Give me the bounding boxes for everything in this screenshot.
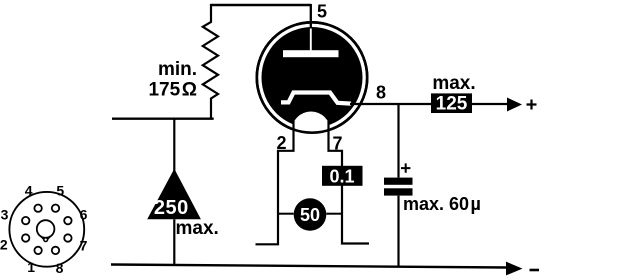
socket pin hole 2 (22, 234, 29, 241)
svg-text:3: 3 (1, 207, 9, 223)
wire top (resistor to pin 5) (211, 4, 312, 6)
capacitor C1 bottom lead wire (397, 196, 399, 268)
heater lead pin 7 wire (329, 121, 370, 244)
socket pin hole 7 (64, 234, 71, 241)
wire triangle lower lead (173, 219, 175, 265)
voltage box 125 (431, 93, 472, 113)
svg-text:2: 2 (277, 133, 287, 153)
socket pin hole 5 (52, 205, 59, 212)
svg-text:50: 50 (300, 205, 320, 225)
svg-text:max.: max. (176, 218, 219, 239)
minus sign (530, 269, 540, 272)
capacitor C1 bottom plate (384, 188, 413, 195)
meter lead left wire (278, 213, 294, 215)
svg-text:max.: max. (432, 73, 475, 94)
svg-text:4: 4 (25, 183, 33, 199)
capacitor C1 top lead wire (397, 104, 399, 178)
cathode (white polyline) (281, 93, 351, 104)
socket pin hole 8 (52, 247, 59, 254)
svg-text:175 Ω: 175 Ω (148, 80, 197, 101)
rectifier tube V1 envelope (257, 22, 367, 132)
tube socket base view outer circle (9, 192, 84, 267)
socket pin hole 1 (34, 247, 41, 254)
svg-text:min.: min. (158, 59, 197, 80)
resistor R1 (203, 4, 218, 119)
envelope stroke overlay (257, 22, 367, 132)
svg-text:8: 8 (376, 83, 386, 103)
voltage marker triangle 250 max (147, 169, 201, 220)
arrow + terminal (507, 98, 522, 112)
svg-text:7: 7 (333, 134, 343, 154)
pin 5 anode lead (black outside disc) (310, 4, 312, 30)
svg-text:6: 6 (80, 207, 88, 223)
socket pin hole 3 (22, 217, 29, 224)
wire bottom rail (111, 265, 507, 268)
arrow - terminal (506, 262, 523, 276)
socket key dot (44, 238, 48, 242)
svg-text:5: 5 (317, 2, 327, 22)
svg-text:125: 125 (436, 94, 468, 115)
tube V1 inner disc (262, 27, 363, 128)
wire triangle upper lead (173, 119, 175, 175)
heater lead pin 2 wire (256, 121, 294, 244)
pin 5 anode lead (white inside disc) (310, 29, 312, 52)
wire left (open end to resistor bottom) (112, 117, 214, 119)
socket pin hole 4 (34, 205, 41, 212)
anode plate (white bar) (283, 50, 339, 57)
meter lead right wire (326, 213, 342, 215)
meter M1 50 (294, 198, 327, 231)
svg-text:0.1: 0.1 (329, 166, 354, 186)
socket key taper (41, 236, 51, 239)
capacitor C1 top plate (384, 178, 413, 185)
svg-text:250: 250 (154, 197, 189, 219)
svg-text:max. 60 µ: max. 60 µ (403, 194, 481, 214)
wire output (pin 8 to + terminal) (350, 103, 508, 105)
svg-text:7: 7 (80, 238, 88, 254)
svg-text:2: 2 (0, 237, 8, 253)
polarity plus (capacitor) (401, 163, 410, 172)
svg-text:5: 5 (56, 183, 64, 199)
plus sign (527, 100, 537, 110)
socket center spigot (37, 220, 55, 238)
capacitor C2 box 0.1 (322, 166, 363, 186)
svg-text:1: 1 (27, 259, 35, 275)
svg-text:8: 8 (56, 260, 64, 276)
socket pin hole 6 (64, 217, 71, 224)
heater dome (292, 112, 331, 151)
